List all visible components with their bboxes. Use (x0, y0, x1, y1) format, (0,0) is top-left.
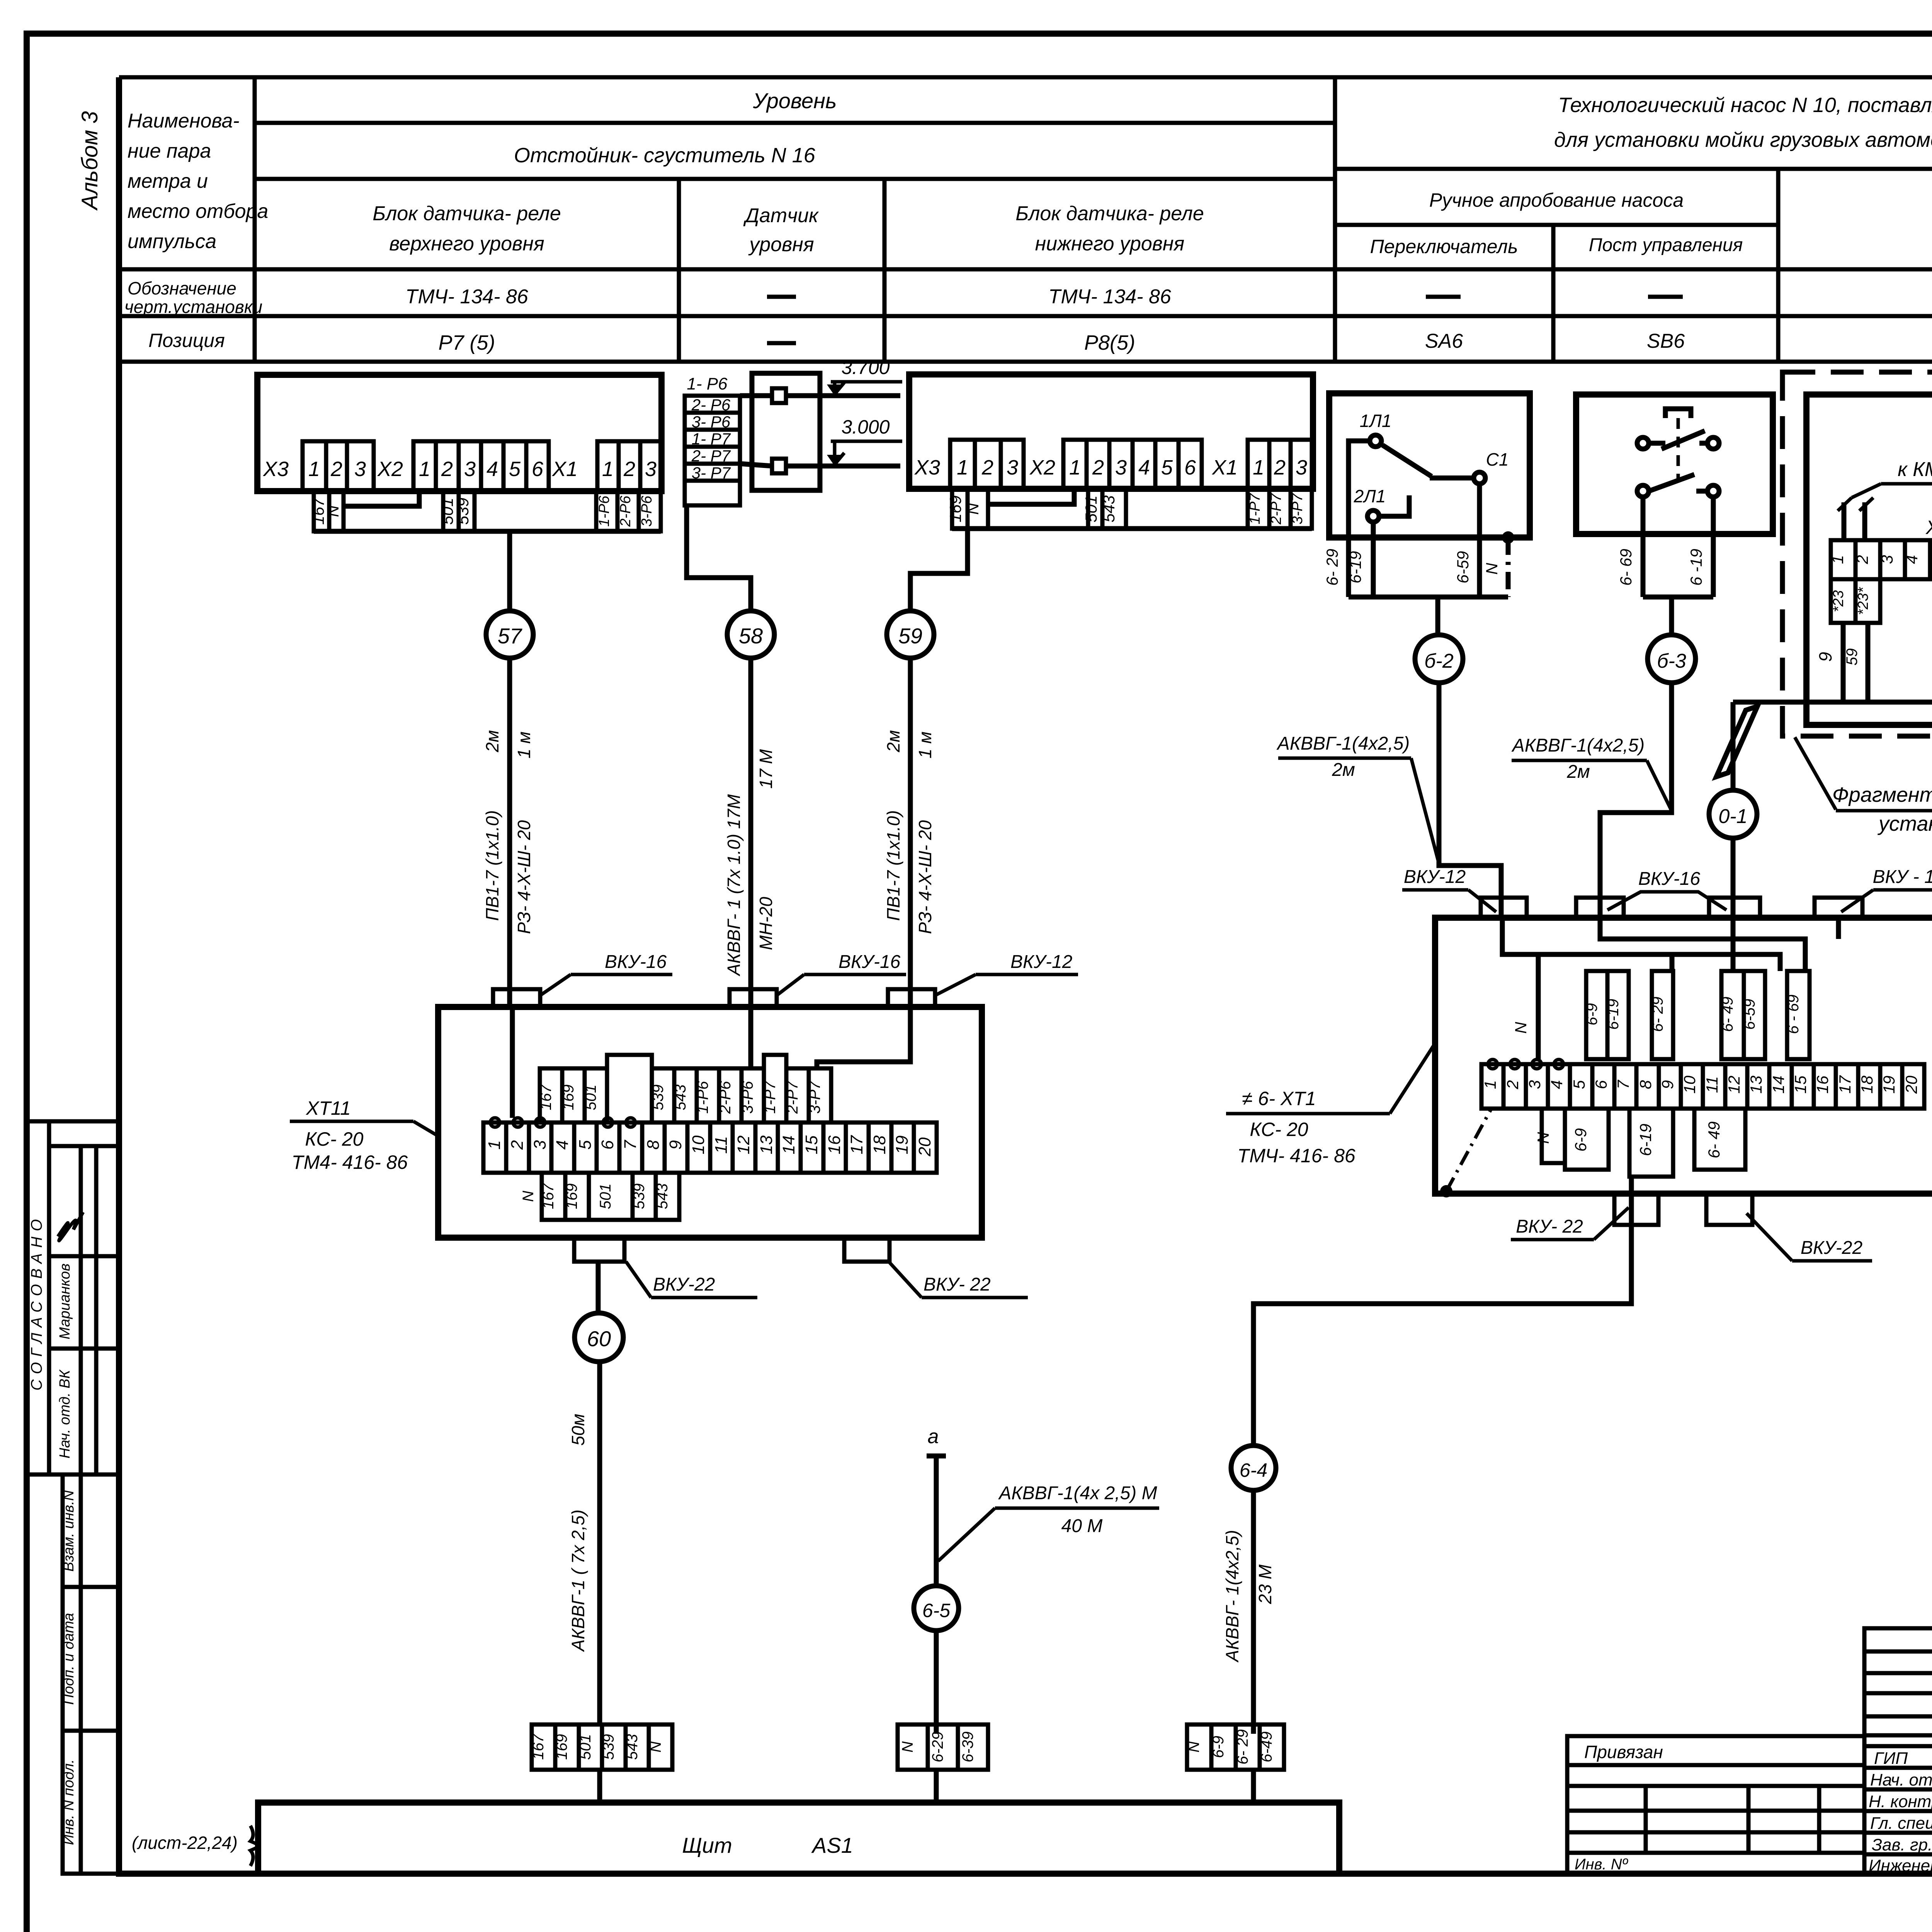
svg-text:169: 169 (563, 1184, 580, 1209)
P8 X1 cells 1 2 3 (1248, 440, 1312, 489)
svg-text:9: 9 (666, 1140, 685, 1150)
wire 6-5 (934, 1456, 939, 1586)
wire 6-4 to Щит (1251, 1490, 1256, 1734)
svg-text:6 - 69: 6 - 69 (1785, 995, 1802, 1034)
ХТ11 tab ВКУ-16 left (493, 989, 540, 1007)
svg-text:Гл. спец.: Гл. спец. (1870, 1814, 1932, 1833)
SB6 actuator dashed stem (1677, 418, 1680, 482)
svg-text:167: 167 (537, 1084, 554, 1110)
circle 6-2 (1415, 635, 1463, 683)
svg-text:Р8(5): Р8(5) (1084, 331, 1135, 354)
svg-text:6-59: 6-59 (1454, 551, 1472, 583)
svg-text:13: 13 (1747, 1076, 1765, 1094)
датчик square terminal upper (772, 388, 786, 403)
svg-text:3-Р7: 3-Р7 (1289, 493, 1306, 524)
svg-text:1: 1 (1481, 1080, 1499, 1089)
6-ХТ1 tab ВКУ-16 (1576, 898, 1624, 918)
svg-text:ПВ1-7 (1х1.0): ПВ1-7 (1х1.0) (482, 810, 502, 921)
svg-text:2: 2 (330, 457, 342, 481)
svg-text:Блок датчика- реле: Блок датчика- реле (1015, 202, 1204, 225)
КМ1 bracket ticks (1838, 498, 1852, 511)
leader to фрагмент (1795, 737, 1836, 810)
dash SB col (1648, 295, 1683, 299)
svg-text:ГИП: ГИП (1874, 1749, 1908, 1768)
svg-text:Взам. инв.N: Взам. инв.N (61, 1490, 77, 1571)
6-ХТ1 inner routing wires (1502, 918, 1838, 1059)
svg-text:Пост управления: Пост управления (1589, 235, 1743, 255)
6-ХТ1 strip pin numbers (1481, 1075, 1920, 1094)
drawing frame bottom (116, 1871, 1932, 1877)
6-ХТ1 tab ВКУ-22 left (1614, 1194, 1658, 1225)
датчик square terminal lower (772, 459, 786, 473)
svg-text:4: 4 (486, 457, 498, 481)
svg-text:метра и: метра и (128, 170, 208, 192)
Щит AS1 box (258, 1803, 1339, 1874)
svg-text:ВКУ-16: ВКУ-16 (838, 952, 901, 972)
svg-text:59: 59 (898, 624, 922, 648)
svg-text:1: 1 (1828, 555, 1847, 564)
svg-text:Нач. отд.: Нач. отд. (1870, 1770, 1932, 1789)
stamp block СОГЛАСОВАНО (27, 1121, 119, 1475)
svg-text:3: 3 (1007, 456, 1018, 479)
SB6 bus (1643, 595, 1713, 600)
svg-text:Подп. и дата: Подп. и дата (61, 1613, 77, 1705)
svg-text:X2: X2 (377, 457, 403, 481)
SB6 upper contact left (1637, 437, 1649, 449)
svg-text:539: 539 (454, 498, 472, 525)
svg-text:1 м: 1 м (915, 731, 935, 759)
svg-text:539: 539 (631, 1184, 648, 1209)
svg-text:Инв. N подл.: Инв. N подл. (61, 1759, 77, 1845)
point a (left) (927, 1454, 946, 1459)
svg-text:9: 9 (1658, 1080, 1677, 1089)
P7 X2 cells 1-6 (413, 441, 549, 491)
svg-text:20: 20 (915, 1137, 934, 1156)
svg-text:3-Р7: 3-Р7 (806, 1080, 823, 1114)
svg-text:11: 11 (712, 1136, 731, 1154)
svg-text:23 М: 23 М (1255, 1564, 1275, 1604)
svg-text:2м: 2м (1332, 760, 1355, 780)
svg-text:3: 3 (464, 457, 476, 481)
svg-text:16: 16 (1813, 1075, 1832, 1094)
P7 hanging cells 167 N (314, 491, 344, 531)
svg-text:6: 6 (532, 457, 544, 481)
svg-text:3: 3 (531, 1140, 549, 1150)
P8 jumper wire N to X2-1 (988, 489, 1074, 504)
svg-text:N: N (324, 505, 342, 517)
svg-text:2: 2 (508, 1140, 527, 1150)
SB6 lower contact left (1637, 485, 1649, 497)
svg-text:6: 6 (1592, 1080, 1610, 1089)
header row: насос N10 section (1335, 167, 1932, 171)
wire 57 to ХТ11 (507, 658, 512, 1005)
wire 59 drop (910, 529, 968, 611)
svg-text:2м: 2м (482, 730, 502, 752)
P7 jumper wire N to X2-1 (344, 491, 419, 506)
circle 60 (575, 1313, 623, 1362)
svg-text:13: 13 (757, 1135, 776, 1154)
6-ХТ1 lower tags (1542, 1109, 1745, 1177)
svg-text:N: N (647, 1741, 664, 1752)
svg-text:Технологический насос N: Технологический насос N 10, поставляемый… (1558, 94, 1932, 117)
svg-text:501: 501 (582, 1085, 599, 1111)
svg-text:ВКУ-16: ВКУ-16 (1638, 869, 1701, 889)
svg-text:АКВВГ-1(4х2,5): АКВВГ-1(4х2,5) (1276, 733, 1410, 754)
svg-text:Блок датчика- реле: Блок датчика- реле (372, 202, 561, 225)
wire КМ1 pin2 (1862, 502, 1867, 540)
svg-text:ТМЧ- 134- 86: ТМЧ- 134- 86 (1048, 286, 1171, 308)
svg-text:X1: X1 (551, 457, 578, 481)
circle 59 (887, 611, 934, 658)
block 6-ХТ1 box (1435, 918, 1932, 1194)
svg-text:ВКУ-22: ВКУ-22 (1801, 1238, 1862, 1258)
svg-text:3-Р6: 3-Р6 (639, 495, 655, 527)
Щит cells 167 169 501 539 543 N (532, 1725, 672, 1770)
wire 6-4 into Щит (1251, 1770, 1256, 1803)
svg-text:Зав. гр.: Зав. гр. (1872, 1835, 1932, 1854)
N dash-dot wire (1506, 537, 1511, 597)
wire 6-59 from С1 (1477, 484, 1482, 597)
ХТ1 terminal strip (1831, 540, 1932, 579)
P7 X3 cells 1 2 3 (303, 441, 374, 491)
svg-text:Н. контр.: Н. контр. (1869, 1792, 1932, 1811)
svg-text:1 м: 1 м (514, 731, 534, 759)
svg-text:2м: 2м (1566, 762, 1590, 782)
svg-text:8: 8 (644, 1140, 663, 1150)
svg-text:N: N (1512, 1022, 1530, 1034)
ХТ11 lower tag row (542, 1173, 679, 1220)
wire 59 (КМ1) (1866, 623, 1871, 702)
svg-text:2: 2 (981, 456, 993, 479)
P8 X2 cells 1-6 (1063, 440, 1202, 489)
svg-text:*23: *23 (1830, 590, 1847, 612)
svg-text:2- Р7: 2- Р7 (691, 447, 731, 465)
svg-text:X3: X3 (914, 456, 940, 479)
circle 57 (486, 611, 533, 658)
header row: Уровень section (255, 121, 1335, 125)
svg-text:МН-20: МН-20 (756, 897, 776, 950)
svg-text:6-19: 6-19 (1346, 551, 1364, 583)
SA6 stub on 2Л1 (1379, 495, 1409, 516)
svg-text:≠ 6- ХТ1: ≠ 6- ХТ1 (1242, 1088, 1316, 1109)
svg-text:50м: 50м (568, 1414, 588, 1446)
P8 bottom bus line (952, 526, 1312, 531)
svg-text:Датчик: Датчик (743, 204, 819, 227)
svg-text:5: 5 (1928, 555, 1932, 564)
ХТ11 upper tag labels (537, 1080, 823, 1114)
SA6 terminal С1 (1474, 472, 1485, 484)
Щит cells N 6-29 6-39 (898, 1725, 988, 1770)
terminal block P7 box (257, 375, 662, 491)
P8 hanging cells 169 N (952, 489, 988, 529)
P7 bottom bus line (314, 529, 661, 534)
svg-text:(лист-22,24): (лист-22,24) (132, 1833, 238, 1853)
level line 3.700 (786, 393, 900, 398)
svg-text:3: 3 (1115, 456, 1127, 479)
svg-text:7: 7 (621, 1139, 640, 1150)
ХТ11 terminal strip 1-20 (483, 1122, 937, 1173)
title block signature grid (1864, 1628, 1932, 1874)
wire to 6-2 (1435, 597, 1440, 635)
svg-text:N: N (964, 503, 982, 515)
svg-text:Р7 (5): Р7 (5) (438, 331, 495, 354)
svg-text:АКВВГ-1 ( 7х 2,5): АКВВГ-1 ( 7х 2,5) (568, 1510, 588, 1653)
dash (767, 341, 796, 345)
svg-text:3.000: 3.000 (841, 416, 889, 438)
SA6 terminal 1Л1 (1370, 435, 1381, 447)
svg-text:2: 2 (623, 457, 635, 481)
ХТ11 tab ВКУ-16 mid (730, 989, 777, 1007)
svg-text:1: 1 (602, 457, 614, 481)
svg-text:РЗ- 4-Х-Ш- 20: РЗ- 4-Х-Ш- 20 (915, 820, 935, 934)
svg-text:ВКУ-12: ВКУ-12 (1010, 952, 1072, 972)
svg-text:3: 3 (645, 457, 656, 481)
svg-text:1-Р7: 1-Р7 (762, 1080, 779, 1114)
svg-text:539: 539 (650, 1085, 667, 1111)
svg-text:уровня: уровня (748, 233, 814, 256)
wire 6-69 from SB6 (1641, 497, 1646, 597)
svg-text:6- 29: 6- 29 (1323, 549, 1341, 586)
svg-text:1-Р6: 1-Р6 (596, 495, 612, 527)
svg-text:18: 18 (870, 1135, 889, 1154)
svg-text:ВКУ-16: ВКУ-16 (605, 952, 667, 972)
SB6 mushroom head (1665, 409, 1691, 418)
svg-text:0-1: 0-1 (1718, 805, 1747, 828)
svg-text:2-Р6: 2-Р6 (717, 1081, 734, 1114)
svg-text:10: 10 (689, 1135, 708, 1154)
wire 60 drop (596, 1262, 601, 1313)
svg-text:РЗ- 4-Х-Ш- 20: РЗ- 4-Х-Ш- 20 (514, 820, 534, 934)
svg-text:Переключатель: Переключатель (1370, 236, 1518, 257)
svg-text:SB6: SB6 (1647, 330, 1685, 352)
svg-text:б-3: б-3 (1657, 650, 1686, 672)
svg-text:7: 7 (1614, 1080, 1632, 1089)
dashed fragment box (1782, 372, 1932, 736)
svg-text:6: 6 (1184, 456, 1196, 479)
header table outline (119, 77, 1932, 362)
svg-text:3: 3 (1878, 555, 1896, 564)
svg-text:1: 1 (1069, 456, 1081, 479)
svg-text:543: 543 (672, 1085, 689, 1111)
svg-text:3- Р7: 3- Р7 (692, 464, 731, 482)
svg-text:ВКУ-22: ВКУ-22 (653, 1274, 715, 1295)
wire 6-19 from SB6 (1711, 497, 1716, 597)
svg-text:КС- 20: КС- 20 (305, 1128, 363, 1150)
svg-text:11: 11 (1703, 1076, 1721, 1093)
svg-text:2Л1: 2Л1 (1354, 486, 1386, 506)
svg-text:169: 169 (560, 1085, 577, 1111)
svg-text:543: 543 (624, 1734, 641, 1760)
SA6 terminal 2Л1 (1367, 510, 1379, 522)
SA6 contact arm 1Л1-С1 (1383, 445, 1432, 476)
drawing frame left (116, 77, 122, 1874)
svg-text:4: 4 (1903, 555, 1921, 564)
svg-text:Обозначение: Обозначение (128, 278, 236, 298)
N junction dot SA6 (1502, 531, 1514, 544)
svg-text:15: 15 (802, 1135, 821, 1154)
svg-text:17: 17 (847, 1135, 866, 1154)
svg-text:установки ( L М127.00.00.000: установки ( L М127.00.00.000 ЭЧ ) (1877, 812, 1932, 835)
svg-text:Марианков: Марианков (57, 1264, 73, 1339)
svg-text:4: 4 (553, 1140, 572, 1150)
svg-text:Привязан: Привязан (1584, 1742, 1663, 1762)
svg-text:СОГЛАСОВАНО: СОГЛАСОВАНО (28, 1214, 45, 1390)
svg-text:Щит: Щит (682, 1833, 732, 1857)
svg-text:17: 17 (1836, 1075, 1854, 1094)
svg-text:Инженер: Инженер (1869, 1856, 1932, 1875)
6-ХТ1 terminal strip 1-20 (1481, 1064, 1924, 1109)
stamp box Инв. N подл. (63, 1731, 119, 1874)
ХТ1 sub-cells *23 (1831, 579, 1855, 623)
svg-text:ХТ1: ХТ1 (1925, 517, 1932, 538)
svg-text:6- 29: 6- 29 (1649, 997, 1666, 1032)
svg-text:6-9: 6-9 (1571, 1128, 1590, 1152)
svg-text:2-Р7: 2-Р7 (784, 1080, 801, 1114)
P8 hanging cells 501 543 (1088, 489, 1126, 529)
svg-text:3: 3 (354, 457, 366, 481)
ХТ11 tab ВКУ-12 right (888, 989, 935, 1007)
svg-text:1: 1 (957, 456, 968, 479)
svg-text:6-29: 6-29 (929, 1731, 946, 1762)
wire 6-5 to Щит (934, 1631, 939, 1734)
svg-text:169: 169 (946, 495, 964, 522)
6-ХТ1 tab 0-1 (1709, 898, 1760, 918)
P7 X1 cells 1 2 3 (597, 441, 662, 491)
wire 60 into Щит (597, 1770, 602, 1803)
svg-text:6: 6 (598, 1140, 617, 1150)
circle 6-4 (1231, 1446, 1276, 1490)
svg-text:40 М: 40 М (1061, 1516, 1103, 1536)
svg-text:3: 3 (1526, 1080, 1544, 1089)
svg-text:ХТ11: ХТ11 (306, 1097, 351, 1119)
ХТ11 strip jumper circles 1-3 (490, 1118, 500, 1127)
svg-text:1: 1 (1253, 456, 1264, 479)
svg-text:N: N (1185, 1741, 1202, 1752)
svg-text:18: 18 (1858, 1075, 1876, 1094)
svg-text:6-19: 6-19 (1605, 999, 1622, 1030)
svg-text:167: 167 (540, 1183, 557, 1209)
svg-text:Отстойник- сгуститель: Отстойник- сгуститель N 16 (514, 144, 816, 167)
svg-text:6- 29: 6- 29 (1234, 1729, 1251, 1764)
wire 6-29 from 1Л1 (1349, 441, 1370, 597)
SB6 lower contact arm (1649, 474, 1694, 491)
svg-text:X1: X1 (1211, 456, 1238, 479)
P7 hanging cells 1-Р6 2-Р6 3-Р6 (596, 491, 661, 531)
svg-text:58: 58 (739, 624, 763, 648)
P8 hanging cells 1-Р7 2-Р7 3-Р7 (1248, 489, 1312, 529)
svg-text:верхнего уровня: верхнего уровня (389, 233, 544, 255)
stamp box Подп. и дата (63, 1587, 119, 1731)
ХТ11 strip pin numbers (485, 1135, 934, 1156)
6-ХТ1 tab ВКУ-12 right (1815, 898, 1862, 918)
ХТ11 upper tag row (540, 1055, 831, 1122)
svg-text:Позиция: Позиция (148, 330, 225, 351)
svg-text:6-4: 6-4 (1240, 1459, 1267, 1481)
svg-text:14: 14 (779, 1136, 798, 1155)
stamp box Взам.инв.N (63, 1475, 119, 1587)
svg-text:Наименова-: Наименова- (128, 110, 240, 132)
ХТ11 tab ВКУ-22 left (574, 1238, 624, 1262)
svg-text:6- 49: 6- 49 (1705, 1121, 1723, 1158)
svg-text:1: 1 (485, 1140, 504, 1150)
svg-text:Нач. отд. ВК: Нач. отд. ВК (57, 1369, 73, 1459)
svg-text:1-Р7: 1-Р7 (1247, 493, 1263, 524)
svg-text:6 -19: 6 -19 (1687, 549, 1705, 586)
svg-text:ВКУ - 12: ВКУ - 12 (1872, 867, 1932, 887)
svg-text:17 М: 17 М (756, 749, 776, 789)
wire 0-1 lower (1731, 838, 1736, 918)
wire 9 (1841, 623, 1846, 702)
svg-text:Фрагмент схемы электрической: Фрагмент схемы электрической соединений (1832, 783, 1932, 806)
svg-text:501: 501 (597, 1184, 614, 1209)
wire stack to lower square (740, 464, 772, 466)
dash (767, 295, 796, 299)
svg-text:16: 16 (825, 1135, 844, 1154)
svg-text:ВКУ- 22: ВКУ- 22 (1516, 1216, 1583, 1237)
wire to 6-3 (1669, 597, 1674, 635)
junction dot on 6-ХТ1 (1440, 1185, 1452, 1197)
push button box SB6 (1576, 395, 1773, 534)
wire 57 drop (507, 531, 512, 611)
wire 6-5 into Щит (934, 1770, 939, 1803)
svg-text:а: а (928, 1425, 939, 1448)
svg-text:N: N (1534, 1132, 1552, 1144)
svg-text:2м: 2м (883, 730, 903, 752)
svg-text:1-Р6: 1-Р6 (694, 1081, 711, 1114)
svg-text:6-59: 6-59 (1741, 999, 1758, 1030)
P8 X3 cells 1 2 3 (950, 440, 1024, 489)
svg-text:6-39: 6-39 (959, 1731, 976, 1762)
dash-dot link to pin1 (1446, 1110, 1491, 1191)
svg-text:Альбом 3: Альбом 3 (77, 111, 102, 211)
Щит cells N 6-9 6-29 6-49 (1187, 1725, 1284, 1770)
svg-text:1Л1: 1Л1 (1360, 411, 1392, 431)
svg-text:6- 49: 6- 49 (1719, 997, 1736, 1032)
title block привязан box (1567, 1736, 1864, 1874)
svg-text:N: N (520, 1190, 537, 1202)
svg-text:5: 5 (576, 1140, 595, 1150)
svg-text:6-49: 6-49 (1258, 1731, 1275, 1762)
switch box SA6 (1329, 393, 1530, 537)
svg-text:нижнего уровня: нижнего уровня (1035, 233, 1185, 255)
svg-text:5: 5 (1570, 1080, 1588, 1089)
svg-text:6-5: 6-5 (922, 1600, 950, 1621)
svg-text:АКВВГ- 1 (7х 1.0) 17М: АКВВГ- 1 (7х 1.0) 17М (724, 794, 744, 977)
svg-text:импульса: импульса (128, 230, 216, 253)
signature rows text (1869, 1749, 1932, 1875)
wire 58 from stack (687, 505, 751, 611)
svg-text:6-9: 6-9 (1583, 1003, 1600, 1026)
ХТ11 box (438, 1007, 982, 1238)
svg-text:1- Р7: 1- Р7 (692, 430, 731, 448)
svg-text:5: 5 (509, 457, 521, 481)
svg-text:6-9: 6-9 (1210, 1736, 1227, 1758)
svg-text:4: 4 (1138, 456, 1150, 479)
svg-text:543: 543 (1100, 495, 1118, 522)
svg-text:N: N (1483, 563, 1501, 575)
svg-text:АКВВГ-1(4х 2,5) М: АКВВГ-1(4х 2,5) М (998, 1483, 1157, 1503)
svg-text:3- Р6: 3- Р6 (692, 413, 731, 431)
svg-text:57: 57 (498, 624, 522, 648)
circle 58 (727, 611, 774, 658)
svg-text:169: 169 (553, 1734, 570, 1760)
svg-text:5: 5 (1161, 456, 1173, 479)
level line 3.000 (786, 464, 900, 469)
SB6 upper contact right (1708, 437, 1719, 449)
header col1 label (128, 110, 268, 253)
wire 6-19 from 2Л1 (1371, 522, 1376, 597)
svg-text:2: 2 (1853, 555, 1871, 564)
